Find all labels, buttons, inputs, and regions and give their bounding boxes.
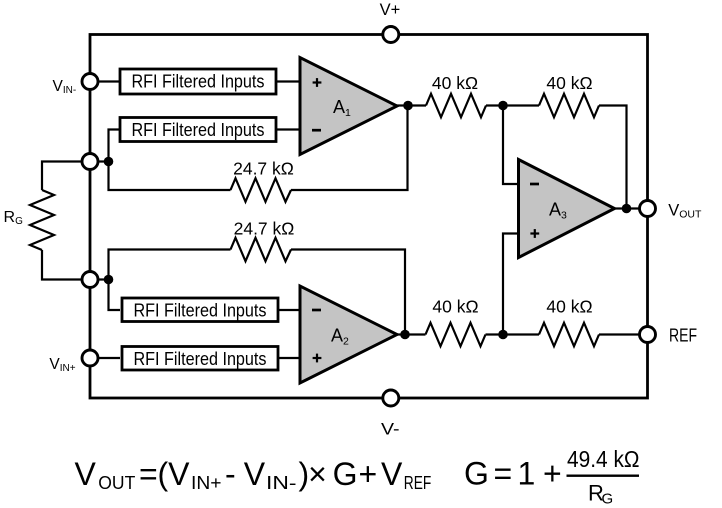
resistor RG (gain resistor, vertical)	[30, 190, 54, 250]
junction R1-R2	[498, 101, 508, 111]
wire RG bottom terminal to node	[90, 278, 109, 280]
resistor 24.7 kOhm (A1 feedback)	[231, 178, 292, 202]
svg-text:V+: V+	[380, 1, 401, 19]
wire A3 output to VOUT	[613, 207, 648, 209]
resistor 24.7 kOhm (A2 feedback)	[231, 238, 292, 262]
svg-text:40 kΩ: 40 kΩ	[546, 73, 592, 93]
junction A1 output	[403, 101, 413, 111]
svg-text:+: +	[359, 456, 378, 492]
terminal VOUT	[640, 201, 656, 217]
wire RFI box 3 left to node at RG bottom	[109, 280, 121, 311]
svg-text:V: V	[75, 456, 97, 492]
svg-text:40 kΩ: 40 kΩ	[546, 297, 592, 317]
junction R3-R4	[498, 330, 508, 340]
wire R3 to R4	[486, 333, 540, 335]
resistor R4 40 kOhm (bottom right)	[539, 323, 599, 347]
RFI filter box 1	[120, 69, 276, 94]
wire bottom node up to A3 + input	[503, 234, 519, 335]
svg-text:V: V	[244, 456, 266, 492]
svg-text:OUT: OUT	[98, 473, 135, 493]
wire RG top lead	[42, 162, 90, 191]
svg-text:IN-: IN-	[266, 473, 297, 493]
junction A2 output	[400, 330, 410, 340]
terminal VIN-	[82, 74, 98, 90]
A3 plus sign	[530, 229, 539, 238]
terminal V+	[383, 27, 399, 43]
RFI filter box 4	[122, 347, 278, 371]
wire RFI box 2 to A1 - input	[276, 128, 301, 130]
svg-text:RG: RG	[4, 209, 24, 227]
terminal V-	[383, 390, 399, 406]
wire 24.7k to A1 output	[291, 106, 408, 191]
wire RG bottom lead	[42, 250, 90, 280]
wire top node down to A3 - input	[503, 106, 519, 185]
op-amp A1	[300, 58, 397, 155]
junction node at RG top	[104, 157, 114, 167]
wire RFI box 1 to A1 + input	[276, 80, 301, 82]
svg-text:VOUT: VOUT	[668, 202, 702, 221]
wire R1 to R2	[486, 104, 539, 106]
wire A2 output to R3	[396, 333, 426, 335]
RFI filter box 2	[120, 118, 276, 142]
svg-text:=: =	[139, 456, 158, 492]
svg-text:REF: REF	[404, 473, 432, 493]
A1 plus sign	[313, 78, 322, 87]
wire VIN- to RFI box 1	[90, 80, 120, 82]
wire RFI box 3 to A2 - input	[278, 309, 301, 311]
wire R4 to REF terminal	[599, 333, 648, 335]
svg-text:RFI Filtered Inputs: RFI Filtered Inputs	[132, 71, 265, 92]
terminal VIN+	[82, 350, 98, 366]
resistor R1 40 kOhm (top left)	[426, 94, 486, 118]
svg-text:G: G	[333, 456, 358, 492]
op-amp A2	[300, 286, 397, 383]
svg-text:REF: REF	[669, 325, 697, 346]
resistor R3 40 kOhm (bottom left)	[426, 323, 486, 347]
wire 24.7k to A2 output	[291, 250, 405, 335]
terminal RG bottom	[82, 272, 98, 288]
wire node down to 24.7k feedback (A1)	[109, 162, 231, 191]
svg-text:40 kΩ: 40 kΩ	[432, 297, 478, 317]
svg-text:RFI Filtered Inputs: RFI Filtered Inputs	[134, 348, 267, 369]
svg-text:RFI Filtered Inputs: RFI Filtered Inputs	[132, 119, 265, 140]
A2 minus sign	[312, 309, 321, 312]
A3 minus sign	[530, 183, 539, 186]
svg-text:1: 1	[518, 456, 536, 492]
svg-text:(V: (V	[158, 456, 191, 492]
junction A3 output	[622, 204, 632, 214]
svg-text:V: V	[381, 456, 403, 492]
svg-text:+: +	[543, 456, 562, 492]
wire RFI box 4 to A2 + input	[278, 357, 301, 359]
svg-text:IN+: IN+	[191, 473, 222, 493]
resistor R2 40 kOhm (top right)	[539, 94, 599, 118]
svg-text:VIN-: VIN-	[53, 78, 77, 96]
A2 plus sign	[313, 354, 322, 363]
svg-text:24.7 kΩ: 24.7 kΩ	[234, 219, 295, 239]
wire RG top terminal to node	[90, 160, 109, 162]
equation fraction bar	[567, 475, 640, 477]
svg-text:=: =	[494, 456, 513, 492]
svg-text:G: G	[464, 456, 489, 492]
wire VIN+ to RFI box 4	[90, 357, 120, 359]
svg-text:×: ×	[308, 456, 327, 492]
svg-text:24.7 kΩ: 24.7 kΩ	[233, 159, 294, 179]
svg-text:-: -	[225, 456, 236, 492]
op-amp A3	[519, 160, 615, 258]
junction node at RG bottom	[104, 275, 114, 285]
wire node up to 24.7k feedback (A2)	[109, 250, 231, 280]
wire RFI box 2 left to node at RG top	[109, 130, 121, 162]
wire A1 output to R1	[396, 104, 426, 106]
svg-text:V-: V-	[381, 421, 400, 439]
svg-text:RFI Filtered Inputs: RFI Filtered Inputs	[134, 300, 267, 321]
svg-text:40 kΩ: 40 kΩ	[432, 73, 478, 93]
terminal REF	[640, 327, 656, 343]
wire R2 right elbow down to A3 output node	[599, 106, 627, 209]
svg-text:G: G	[602, 491, 614, 508]
A1 minus sign	[312, 129, 321, 132]
supply rail box	[90, 35, 648, 399]
RFI filter box 3	[122, 298, 278, 322]
terminal RG top	[82, 154, 98, 170]
svg-text:49.4 kΩ: 49.4 kΩ	[567, 446, 640, 472]
svg-text:VIN+: VIN+	[49, 356, 75, 374]
